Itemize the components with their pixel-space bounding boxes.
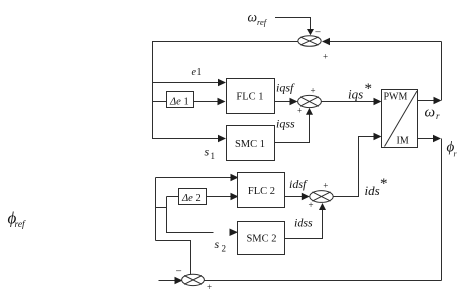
svg-text:IM: IM xyxy=(397,136,409,147)
svg-text:PWM: PWM xyxy=(384,92,408,103)
summing junction J3 xyxy=(310,191,333,203)
summing junction J2 xyxy=(298,95,322,107)
svg-text:ω: ω xyxy=(425,105,436,121)
label plus J1 xyxy=(323,52,328,62)
label plus J2 bottom xyxy=(297,106,302,116)
wire delta-e2 branch vertical xyxy=(166,197,168,234)
label plus J2 top xyxy=(310,86,315,96)
svg-text:*: * xyxy=(380,176,388,192)
wire s1 xyxy=(153,135,227,142)
svg-text:+: + xyxy=(310,86,315,96)
svg-text:s: s xyxy=(215,237,220,251)
label minus J4 xyxy=(175,266,181,278)
wire bus connector xyxy=(156,207,168,209)
wire delta-e1 input xyxy=(153,101,167,103)
wire speed feedback vertical xyxy=(441,42,443,101)
svg-text:+: + xyxy=(308,200,313,210)
svg-text:SMC 2: SMC 2 xyxy=(246,234,276,245)
svg-text:FLC 1: FLC 1 xyxy=(236,92,263,103)
block FLC2 xyxy=(238,173,285,208)
label phi_ref xyxy=(8,209,27,231)
svg-text:r: r xyxy=(436,111,440,121)
wire e2 xyxy=(156,174,239,181)
svg-text:1: 1 xyxy=(197,67,202,78)
wire delta-e2 input xyxy=(167,196,179,198)
svg-text:s: s xyxy=(205,145,210,159)
label minus J1 xyxy=(315,27,321,39)
label iqs-star xyxy=(348,81,372,102)
label iqss xyxy=(276,117,295,131)
label s1 xyxy=(205,145,216,162)
wire channel2 vertical bus xyxy=(155,178,157,241)
wire J4 output up xyxy=(156,241,191,275)
svg-text:ids: ids xyxy=(365,183,380,198)
svg-text:Δe 1: Δe 1 xyxy=(169,97,189,108)
wire flux feedback vertical xyxy=(441,139,443,281)
svg-text:idss: idss xyxy=(294,216,313,230)
svg-text:1: 1 xyxy=(211,151,216,161)
wire idss from SMC2 xyxy=(285,203,327,239)
wire omega_r output xyxy=(418,97,442,104)
block delta-e1 xyxy=(167,92,194,108)
svg-text:+: + xyxy=(323,52,328,62)
block SMC1 xyxy=(227,126,275,161)
label phi_r xyxy=(447,140,458,159)
wire phi_ref stub xyxy=(159,277,183,284)
svg-text:SMC 1: SMC 1 xyxy=(235,139,265,150)
svg-text:*: * xyxy=(365,81,373,97)
summing junction J4 xyxy=(182,274,205,285)
label plus J3 top xyxy=(323,180,328,190)
block SMC2 xyxy=(238,222,285,255)
wire e1 xyxy=(153,79,227,86)
label omega_ref xyxy=(248,10,268,27)
wire iqsf xyxy=(275,98,298,105)
svg-text:+: + xyxy=(297,106,302,116)
wire idsf xyxy=(285,193,310,200)
label plus J4 xyxy=(207,282,212,292)
block PWM-IM inverter and motor xyxy=(382,90,418,148)
wire phi_r output xyxy=(418,135,442,142)
label ids-star xyxy=(365,176,388,198)
wire iqss from SMC1 xyxy=(275,108,314,143)
label omega_r xyxy=(425,105,441,122)
label idss xyxy=(294,216,313,230)
wire delta-e2 output xyxy=(207,193,239,200)
svg-text:idsf: idsf xyxy=(289,177,308,191)
summing junction J1 xyxy=(298,36,321,47)
label idsf xyxy=(289,177,308,191)
wire ids-star to IM xyxy=(333,133,381,197)
block delta-e2 xyxy=(179,189,207,205)
svg-text:ref: ref xyxy=(15,219,27,230)
wire speed feedback top xyxy=(322,38,442,45)
svg-text:2: 2 xyxy=(222,244,227,254)
svg-text:FLC 2: FLC 2 xyxy=(248,186,275,197)
wire channel1 vertical bus xyxy=(152,41,154,139)
label plus J3 bottom xyxy=(308,200,313,210)
wire delta-e1 output xyxy=(194,98,226,105)
svg-text:iqsf: iqsf xyxy=(276,81,295,95)
block FLC1 xyxy=(227,79,275,114)
label iqsf xyxy=(276,81,295,95)
svg-text:+: + xyxy=(323,180,328,190)
svg-text:+: + xyxy=(207,282,212,292)
label s2 xyxy=(215,237,227,254)
wire flux feedback bottom xyxy=(204,280,441,282)
svg-text:Δe 2: Δe 2 xyxy=(181,193,201,204)
wire omega_ref lead xyxy=(275,18,314,36)
wire iqs-star to PWM xyxy=(321,98,381,105)
label e1 xyxy=(192,67,202,78)
wire J1 output left xyxy=(153,41,298,43)
svg-text:iqss: iqss xyxy=(276,117,295,131)
svg-text:iqs: iqs xyxy=(348,87,363,102)
wire s2 xyxy=(167,229,239,237)
svg-text:−: − xyxy=(175,266,181,278)
